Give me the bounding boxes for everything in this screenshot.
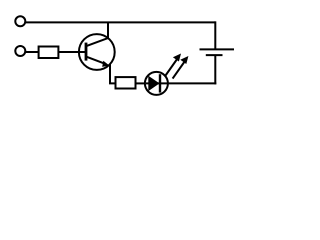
LED light arrow 2 <box>173 56 189 79</box>
LED light arrow 1 <box>165 54 181 77</box>
wire R2 to LED D1 <box>136 82 147 84</box>
wire Q1 emitter to R2 <box>110 65 116 84</box>
wire battery top lead <box>214 21 216 49</box>
LED D1 <box>145 72 168 95</box>
resistor R1 <box>39 47 59 59</box>
wire J2 to R1 <box>25 51 38 53</box>
terminal J2 <box>15 46 25 56</box>
wire LED to battery <box>167 82 216 84</box>
wire R1 to Q1 base <box>58 51 86 53</box>
battery B1 positive plate <box>200 48 235 50</box>
battery B1 negative plate <box>206 54 223 56</box>
terminal J1 <box>15 16 25 26</box>
transistor Q1 <box>79 22 115 70</box>
wire battery bottom lead <box>214 55 216 84</box>
resistor R2 <box>116 77 136 88</box>
wire top rail from terminal J1 to battery <box>26 21 215 23</box>
